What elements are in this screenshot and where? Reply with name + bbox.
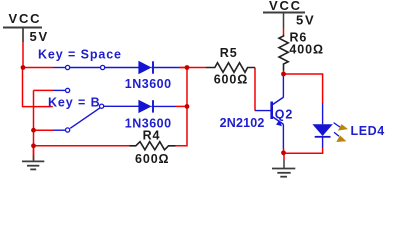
wire switch Space bottom throw to rail V2: [34, 89, 54, 91]
wire node A to switch Space top throw: [23, 67, 53, 69]
svg-text:600Ω: 600Ω: [214, 72, 248, 86]
wire rail V2 vertical: [33, 90, 35, 160]
LED LED4: [312, 103, 332, 148]
LED emission arrow 2: [334, 132, 346, 142]
svg-text:400Ω: 400Ω: [289, 42, 323, 56]
wire diode D2 cathode to node C: [176, 105, 187, 107]
wire R4 right end up to node C: [176, 106, 188, 145]
ground right: [272, 153, 295, 177]
svg-text:5V: 5V: [296, 13, 316, 28]
resistor R6: [279, 35, 288, 71]
power VCC right: [263, 13, 305, 29]
wire LED cathode down and left to node E: [284, 147, 323, 153]
svg-text:VCC: VCC: [269, 0, 302, 13]
svg-text:LED4: LED4: [351, 124, 385, 138]
diode D2: [138, 100, 176, 113]
wire node D right and down to LED anode: [284, 74, 323, 103]
wire node B to node C vertical: [186, 68, 188, 107]
svg-text:5V: 5V: [30, 29, 50, 44]
resistor R4: [130, 142, 176, 150]
node A (VCC rail at switch Space): [21, 65, 26, 70]
ground left: [22, 146, 44, 170]
node E (Q2 emitter / LED cathode / ground): [281, 150, 286, 155]
transistor Q2 (NPN): [255, 74, 284, 149]
wire R5 down to Q2 base: [254, 68, 256, 111]
wire R6 bottom to node D: [283, 71, 285, 75]
switch S1 Key=Space (closed): [53, 65, 139, 92]
svg-text:Key = Space: Key = Space: [38, 48, 122, 62]
wire Q2 emitter to node E: [283, 148, 285, 153]
svg-text:VCC: VCC: [9, 11, 42, 26]
svg-text:R4: R4: [143, 129, 161, 143]
LED emission arrow 1: [334, 123, 348, 131]
wire VCC left stem to node A: [22, 42, 24, 68]
svg-text:Q2: Q2: [275, 108, 293, 122]
wire switch B bottom throw lead: [34, 129, 54, 131]
resistor R5: [206, 63, 255, 73]
svg-text:R5: R5: [220, 46, 238, 60]
wire diode D1 cathode to node B: [179, 67, 187, 69]
svg-text:1N3600: 1N3600: [125, 77, 172, 91]
node junction R4 left on V2: [31, 143, 36, 148]
wire node B to R5: [179, 67, 206, 69]
node junction switch B throw on V2: [31, 128, 36, 133]
diode D1: [138, 61, 179, 74]
node B (D1 cathode / R5): [185, 65, 190, 70]
svg-text:600Ω: 600Ω: [135, 152, 169, 166]
power VCC left: [3, 28, 42, 43]
wire left rail from node A down and right to switch B common: [23, 68, 100, 107]
svg-text:2N2102: 2N2102: [220, 116, 265, 130]
wire R4 row left: [34, 145, 130, 147]
switch S2 Key=B (thrown down): [53, 97, 139, 133]
node C (D2 cathode / R4): [185, 104, 190, 109]
svg-text:Key = B: Key = B: [48, 96, 101, 110]
wire VCC right stem to R6: [283, 29, 285, 35]
node D (R6 / Q2 collector / LED): [281, 72, 286, 77]
